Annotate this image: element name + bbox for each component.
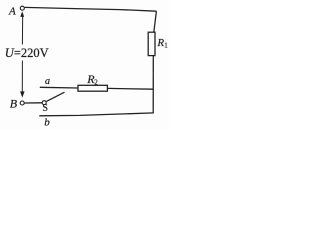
svg-text:1: 1 xyxy=(164,42,168,50)
svg-text:S: S xyxy=(42,103,48,114)
wire branch a left segment xyxy=(40,86,78,89)
arrowhead up at node A xyxy=(20,11,24,17)
wire from R1 down right side xyxy=(152,56,154,113)
wire branch a right segment to right bus xyxy=(107,87,153,90)
svg-text:a: a xyxy=(45,76,50,87)
svg-text:b: b xyxy=(44,116,50,128)
arrowhead down at node B xyxy=(20,91,25,97)
switch S pivot circle xyxy=(42,101,46,105)
node A terminal circle xyxy=(20,6,24,10)
svg-text:A: A xyxy=(8,5,16,17)
resistor R1 xyxy=(148,32,155,55)
voltage arrow shaft lower xyxy=(21,61,23,93)
svg-text:B: B xyxy=(10,97,18,111)
svg-text:U=220V: U=220V xyxy=(5,46,49,60)
wire branch b xyxy=(39,113,153,116)
voltage arrow shaft upper xyxy=(21,14,23,45)
resistor R2 xyxy=(78,85,107,91)
wire top from node A to top-right corner xyxy=(25,7,157,11)
wire right side down to resistor R1 xyxy=(154,11,157,32)
node B terminal circle xyxy=(20,101,24,105)
svg-text:2: 2 xyxy=(94,79,98,87)
svg-text:R: R xyxy=(156,37,164,49)
wire from node B to switch pivot xyxy=(25,102,42,104)
switch S blade xyxy=(46,92,64,101)
